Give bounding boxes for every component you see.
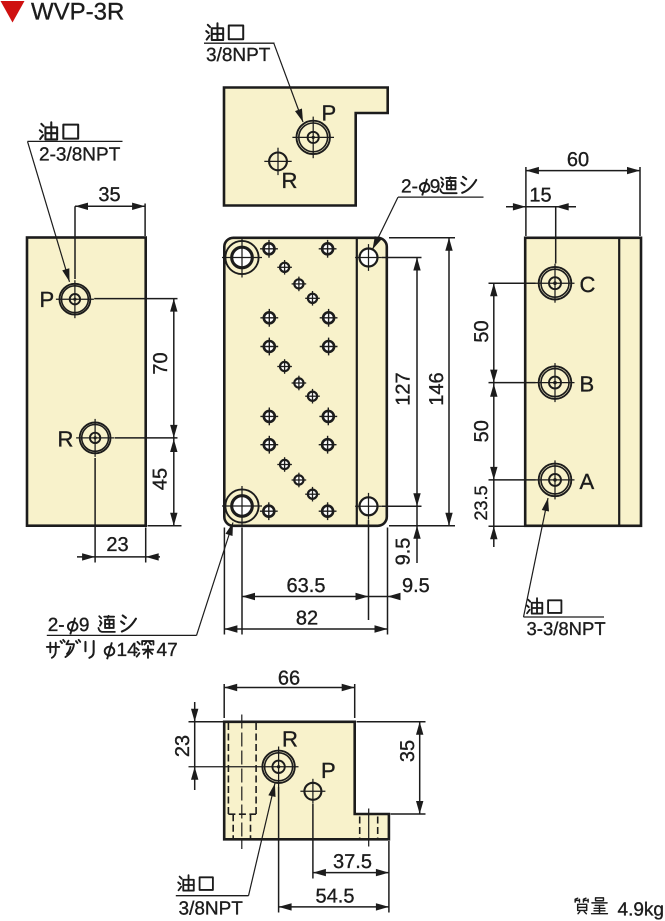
svg-text:2-3/8NPT: 2-3/8NPT xyxy=(39,145,121,166)
svg-text:127: 127 xyxy=(393,372,415,405)
P leader right xyxy=(94,298,177,300)
hole center line xyxy=(241,715,243,850)
dim 15 xyxy=(506,206,576,208)
dim 60 xyxy=(526,170,640,172)
dim 50 B-A xyxy=(493,383,495,480)
svg-text:WVP-3R: WVP-3R xyxy=(31,0,124,26)
dim 63.5 and 9.5 xyxy=(242,596,400,598)
svg-text:3/8NPT: 3/8NPT xyxy=(206,45,271,66)
svg-text:35: 35 xyxy=(397,740,419,762)
leader to top-right hole xyxy=(373,197,399,249)
svg-text:70: 70 xyxy=(150,352,172,374)
svg-text:60: 60 xyxy=(567,149,589,171)
top label oil port 3/8NPT xyxy=(206,23,223,40)
dim 23 (left view bottom) xyxy=(77,556,160,558)
svg-text:23: 23 xyxy=(172,735,194,757)
svg-text:45: 45 xyxy=(150,468,172,490)
svg-text:P: P xyxy=(321,758,336,783)
svg-text:R: R xyxy=(282,727,298,752)
dim 70 xyxy=(173,299,175,438)
through hole top-right xyxy=(355,244,382,271)
through hole bottom-right xyxy=(355,493,382,520)
left view outline xyxy=(27,238,146,526)
hidden through hole dashed lines xyxy=(232,814,234,838)
leader to bottom R xyxy=(249,784,275,896)
pattern small holes xyxy=(277,260,292,275)
bottom view port R xyxy=(262,751,294,783)
svg-text:A: A xyxy=(580,469,595,494)
svg-text:50: 50 xyxy=(471,320,493,342)
svg-text:82: 82 xyxy=(296,608,318,630)
dim 127 xyxy=(382,257,422,259)
mass note xyxy=(575,898,588,913)
leader to left P xyxy=(28,141,70,281)
svg-text:C: C xyxy=(580,272,596,297)
top view port R xyxy=(264,148,291,175)
svg-text:47: 47 xyxy=(157,640,178,661)
svg-text:14: 14 xyxy=(117,640,139,661)
hidden through hole in tab xyxy=(359,817,361,839)
dim 9.5 vertical xyxy=(416,506,418,563)
svg-text:P: P xyxy=(322,101,337,126)
svg-text:R: R xyxy=(58,427,74,452)
dim 35 (bottom view) xyxy=(419,722,421,814)
svg-text:3/8NPT: 3/8NPT xyxy=(179,899,244,920)
dim 35 xyxy=(75,205,145,207)
svg-text:63.5: 63.5 xyxy=(287,575,326,597)
svg-text:23.5: 23.5 xyxy=(471,485,491,520)
svg-text:9.5: 9.5 xyxy=(402,575,430,597)
right label oil port 3-3/8NPT xyxy=(527,598,543,613)
dim 50 C-B xyxy=(493,283,495,382)
ext lines below center view xyxy=(223,528,225,635)
left view port R xyxy=(76,419,114,457)
svg-text:9: 9 xyxy=(79,615,90,636)
top view outline xyxy=(224,88,388,206)
dim 23.5 xyxy=(493,480,495,547)
svg-text:3-3/8NPT: 3-3/8NPT xyxy=(527,618,606,639)
right view step line xyxy=(618,239,620,526)
pattern medium holes xyxy=(260,240,278,258)
svg-text:15: 15 xyxy=(529,185,551,207)
svg-text:4.9kg: 4.9kg xyxy=(618,900,664,921)
center view step line xyxy=(356,239,358,526)
svg-text:B: B xyxy=(580,372,595,397)
svg-text:146: 146 xyxy=(426,372,448,405)
svg-text:9: 9 xyxy=(430,176,441,197)
dim 82 xyxy=(224,628,387,630)
left view port P xyxy=(56,280,94,318)
svg-text:54.5: 54.5 xyxy=(316,886,355,908)
dim 37.5 xyxy=(312,804,314,879)
top view port P xyxy=(292,117,334,159)
bottom view port P xyxy=(300,779,325,804)
svg-text:2-: 2- xyxy=(401,176,418,197)
svg-text:37.5: 37.5 xyxy=(333,851,372,873)
dim 23 (bottom view) xyxy=(194,702,196,790)
bottom view outline xyxy=(224,722,389,840)
svg-text:23: 23 xyxy=(106,534,128,556)
svg-text:66: 66 xyxy=(278,668,300,690)
svg-text:35: 35 xyxy=(98,184,120,206)
svg-text:2-: 2- xyxy=(48,615,65,636)
bottom label oil port 3/8NPT xyxy=(178,875,194,890)
right view port B xyxy=(536,363,575,402)
counterbore hole top-left xyxy=(222,238,262,278)
dim 54.5 xyxy=(278,787,280,913)
svg-text:R: R xyxy=(282,168,298,193)
right view port A xyxy=(536,460,575,499)
dim 66 xyxy=(224,687,355,689)
center view plate xyxy=(224,238,386,526)
svg-text:9.5: 9.5 xyxy=(393,538,415,566)
leader to bottom-left hole xyxy=(197,523,234,636)
logo red triangle xyxy=(1,1,25,23)
tab hole center line xyxy=(368,809,370,847)
right view port C xyxy=(536,264,575,303)
svg-text:P: P xyxy=(40,287,55,312)
hidden counterbore dashed lines xyxy=(227,723,229,814)
left label oil port 2-3/8NPT xyxy=(40,122,57,139)
counterbore hole bottom-left xyxy=(222,486,262,526)
dim 45 xyxy=(173,438,175,526)
R leader right xyxy=(115,437,178,439)
leaders C B A xyxy=(489,282,536,284)
leader to P xyxy=(274,43,303,122)
dim 146 xyxy=(389,237,455,239)
svg-text:50: 50 xyxy=(471,420,493,442)
leader to A xyxy=(524,498,549,617)
right view outline xyxy=(525,238,641,526)
